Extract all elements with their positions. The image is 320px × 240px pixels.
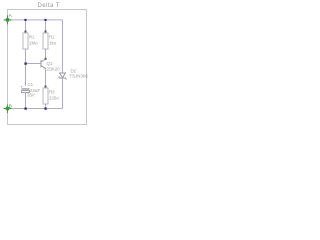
svg-text:R1: R1 — [29, 35, 35, 40]
wire right vertical — [62, 20, 64, 73]
resistor R1 — [23, 31, 38, 50]
wire C1 to bottom — [25, 93, 27, 109]
junction dot bottom-right — [44, 107, 46, 109]
svg-text:B: B — [9, 103, 12, 108]
wire R1 drop — [25, 20, 27, 33]
capacitor C1 — [20, 82, 40, 98]
junction dot base — [24, 62, 26, 64]
resistor R2 — [43, 31, 57, 50]
resistor R3 — [43, 86, 59, 105]
node A — [4, 15, 12, 24]
bottom wire — [8, 108, 63, 110]
junction dot top-left — [24, 19, 26, 21]
svg-text:R3: R3 — [49, 90, 55, 95]
wire Q1 to R3 — [45, 69, 47, 88]
wire R3 to bottom — [45, 104, 47, 109]
svg-text:TSJN306: TSJN306 — [70, 74, 89, 79]
junction dot bottom-left — [24, 107, 26, 109]
svg-text:C1: C1 — [28, 82, 34, 87]
transistor Q1 — [41, 58, 47, 69]
junction dot top-right — [44, 19, 46, 21]
zener diode D2 — [59, 73, 67, 80]
svg-text:2SK20: 2SK20 — [47, 67, 61, 72]
svg-text:35V: 35V — [27, 93, 35, 98]
wire D2 to bottom — [62, 78, 64, 109]
svg-text:1Mo: 1Mo — [29, 41, 38, 46]
svg-text:Q1: Q1 — [47, 61, 53, 66]
sheet border frame — [8, 10, 87, 125]
svg-text:A: A — [9, 13, 13, 18]
svg-text:1ko: 1ko — [49, 41, 57, 46]
svg-text:R2: R2 — [49, 35, 55, 40]
svg-text:Delta T: Delta T — [38, 3, 60, 9]
wire R2 drop — [45, 20, 47, 33]
node B — [4, 105, 12, 114]
wire base — [26, 63, 41, 65]
top wire — [8, 19, 63, 21]
wire R1 to C1 — [25, 49, 27, 86]
wire R2 to Q1 — [45, 49, 47, 60]
svg-text:220o: 220o — [49, 96, 59, 101]
